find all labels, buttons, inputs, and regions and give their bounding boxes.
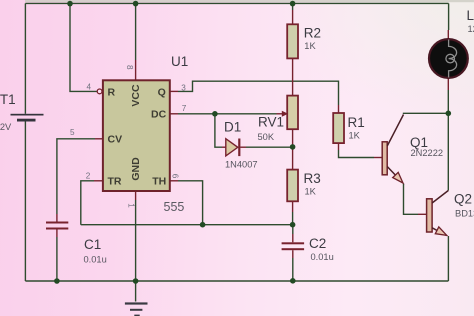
wire Q1 emitter to Q2 base — [404, 184, 419, 215]
svg-text:2: 2 — [86, 171, 91, 180]
top crop strip — [25, 0, 474, 2]
pin TH stub — [170, 180, 178, 182]
potentiometer RV1 wiper arrow — [282, 111, 288, 117]
wire R1 bottom to Q1 base — [339, 150, 375, 158]
wire D1 cathode to RV1 bottom junction — [246, 146, 293, 148]
capacitor C1 — [46, 222, 68, 230]
node C2 bottom rail junction — [290, 278, 296, 284]
svg-text:7: 7 — [182, 104, 187, 113]
svg-text:0.01u: 0.01u — [311, 252, 334, 262]
svg-text:0.01u: 0.01u — [84, 255, 107, 265]
svg-text:8: 8 — [125, 65, 134, 70]
svg-text:R3: R3 — [304, 171, 321, 186]
wire lamp bottom to junction — [447, 90, 449, 113]
svg-text:C1: C1 — [84, 237, 101, 252]
svg-text:GND: GND — [130, 157, 142, 181]
svg-text:1K: 1K — [349, 131, 361, 141]
pin R1 top stub — [338, 105, 340, 113]
wire ground stub — [135, 281, 137, 302]
battery BT1 — [11, 114, 44, 122]
ground — [125, 302, 148, 316]
svg-text:Q: Q — [158, 86, 166, 98]
wire bottom rail — [25, 280, 448, 282]
svg-text:BD139: BD139 — [455, 209, 474, 219]
svg-text:C2: C2 — [309, 236, 326, 251]
transistor Q1 — [382, 115, 403, 184]
svg-text:VCC: VCC — [130, 84, 142, 107]
wire battery bottom to rail — [24, 121, 26, 281]
svg-text:CV: CV — [108, 134, 123, 146]
svg-text:1N4007: 1N4007 — [225, 160, 258, 170]
pin GND stub — [135, 191, 137, 200]
resistor R3 — [287, 170, 298, 202]
pin D1 anode stub — [222, 146, 226, 148]
pin Q stub — [170, 90, 178, 92]
svg-text:6: 6 — [171, 174, 180, 179]
wire Q2 collector riser — [447, 113, 449, 190]
wire CV to C1 — [57, 139, 95, 214]
pin lamp top stub — [447, 30, 449, 40]
svg-text:TH: TH — [152, 176, 166, 188]
wire Q output to R1 — [178, 81, 339, 105]
node reset rail junction — [67, 1, 73, 7]
svg-text:555: 555 — [164, 200, 185, 214]
wire lamp top riser — [448, 3, 450, 30]
pin Q2 base stub — [418, 213, 427, 215]
op-amp U1 555 timer body — [103, 80, 170, 191]
svg-text:1K: 1K — [305, 187, 317, 197]
pin D1 cathode stub — [240, 146, 246, 148]
node VCC rail junction — [133, 1, 139, 7]
wire DC pin7 to RV1 wiper — [178, 113, 277, 115]
node RV1 R3 D1 junction — [290, 144, 296, 150]
wire Q1 collector to lamp junction — [404, 112, 449, 115]
wire VCC riser — [135, 3, 137, 60]
node R3 C2 junction — [290, 222, 296, 228]
pin lamp bottom stub — [447, 78, 449, 91]
diode D1 — [226, 139, 241, 157]
svg-text:D1: D1 — [224, 120, 241, 135]
capacitor C2 — [282, 242, 305, 250]
wire pin7 junction down to D1 — [215, 114, 222, 147]
pin DC stub — [170, 113, 178, 115]
node R2 rail junction — [290, 1, 296, 7]
wire TR-TH horizontal rail — [81, 224, 293, 226]
pin VCC stub — [135, 60, 137, 80]
pin RV1 wiper lead — [277, 113, 283, 115]
wire reset riser to pin R — [70, 3, 97, 91]
svg-text:2N2222: 2N2222 — [411, 148, 444, 158]
wire Q2 emitter to bottom rail — [447, 236, 449, 281]
svg-text:1: 1 — [127, 203, 136, 208]
svg-text:L1: L1 — [467, 8, 474, 23]
svg-text:12V: 12V — [0, 122, 12, 132]
svg-text:Q2: Q2 — [454, 192, 472, 207]
svg-text:DC: DC — [151, 109, 167, 121]
svg-text:R2: R2 — [304, 25, 321, 40]
wire R3 bottom to TR-TH rail — [292, 212, 294, 225]
lamp L1 — [429, 39, 468, 78]
svg-text:U1: U1 — [171, 54, 188, 69]
wire TR pin down — [81, 181, 94, 225]
svg-text:3: 3 — [181, 83, 186, 92]
pin R2 bottom to RV1 top — [292, 58, 294, 95]
pin R3 bottom stub — [292, 201, 294, 212]
pin CV stub — [95, 138, 103, 140]
svg-text:R: R — [108, 86, 116, 98]
svg-text:4: 4 — [87, 83, 92, 92]
pin C1 top stub — [56, 214, 58, 222]
pin C1 bottom stub — [56, 230, 58, 238]
pin TR stub — [94, 180, 103, 182]
pin C2 bottom stub — [292, 250, 294, 258]
pin R inversion circle — [97, 89, 102, 94]
node GND rail junction — [133, 278, 139, 284]
node pin7 D1 RV1 junction — [212, 111, 218, 117]
pin Q1 base stub — [374, 157, 382, 159]
wire TH pin down — [178, 181, 203, 225]
wire R2 top — [292, 3, 294, 10]
svg-text:BT1: BT1 — [0, 92, 16, 107]
pin C2 top stub — [292, 234, 294, 242]
wire GND pin to bottom rail — [135, 200, 137, 281]
resistor R1 — [333, 113, 344, 143]
resistor R2 — [287, 24, 298, 58]
svg-text:50K: 50K — [258, 132, 275, 142]
svg-text:RV1: RV1 — [258, 115, 284, 130]
wire C1 bottom to rail — [56, 237, 58, 281]
svg-text:R1: R1 — [348, 115, 365, 130]
svg-text:12V: 12V — [468, 24, 474, 34]
pin R1 bottom stub — [338, 143, 340, 150]
wire top rail — [25, 2, 448, 4]
node C1 bottom rail junction — [54, 278, 60, 284]
wire battery top riser — [24, 3, 26, 113]
node TR TH junction — [200, 222, 206, 228]
node lamp collector junction — [446, 111, 452, 117]
pin RV1 bottom to R3 top — [292, 129, 294, 169]
potentiometer RV1 — [287, 96, 298, 130]
svg-text:5: 5 — [70, 128, 75, 137]
svg-text:1K: 1K — [304, 41, 316, 51]
pin R2 top stub — [292, 10, 294, 24]
svg-text:TR: TR — [108, 176, 122, 188]
wire C2 top — [292, 225, 294, 234]
transistor Q2 — [427, 191, 449, 236]
wire C2 bottom to rail — [292, 258, 294, 281]
